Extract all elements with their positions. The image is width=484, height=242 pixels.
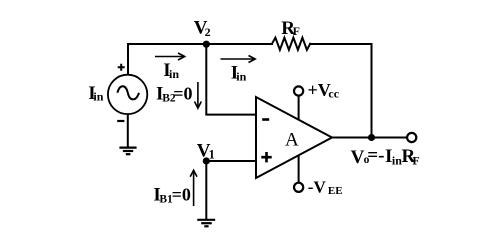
svg-text:A: A (285, 129, 299, 150)
svg-text:cc: cc (328, 87, 339, 101)
svg-text:EE: EE (328, 185, 343, 197)
svg-text:F: F (293, 24, 300, 38)
svg-text:in: in (169, 67, 179, 81)
svg-text:2: 2 (205, 25, 211, 39)
svg-text:+V: +V (308, 80, 331, 100)
svg-text:1: 1 (209, 147, 215, 161)
svg-text:F: F (412, 154, 419, 168)
svg-text:-V: -V (308, 178, 327, 197)
svg-text:in: in (93, 90, 103, 104)
svg-text:=0: =0 (173, 84, 192, 104)
svg-text:V: V (351, 147, 365, 168)
svg-text:=0: =0 (172, 184, 191, 204)
svg-text:in: in (236, 70, 246, 84)
svg-text:=-: =- (367, 145, 384, 166)
